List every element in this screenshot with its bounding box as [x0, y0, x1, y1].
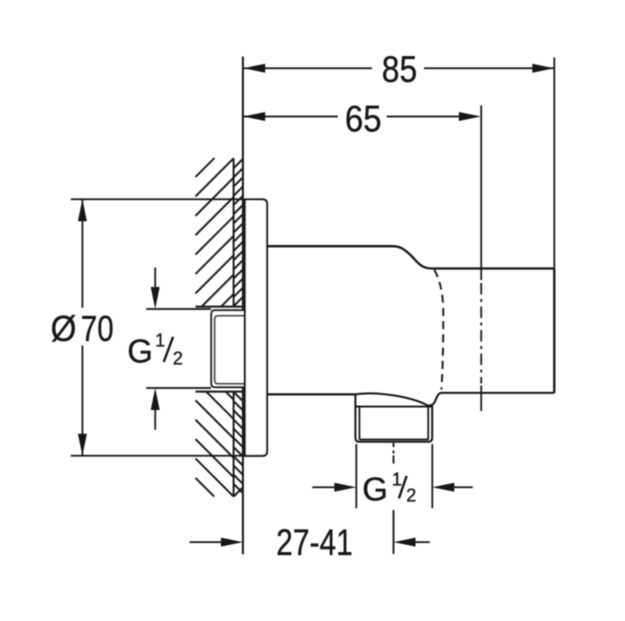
- wall surface line (left extension line): [242, 57, 244, 555]
- 85 right extension (above body): [553, 58, 555, 269]
- body bottom right: [428, 393, 554, 406]
- wall hatch lower section: long lines: [196, 392, 234, 497]
- nipple shoulder arc: [355, 393, 428, 405]
- svg-text:G: G: [127, 333, 153, 370]
- 65/center extension line: [480, 105, 482, 280]
- svg-text:Ø: Ø: [51, 310, 77, 350]
- body right edge: [553, 269, 555, 393]
- svg-text:2: 2: [406, 485, 416, 505]
- 65 dimension: [243, 116, 459, 118]
- svg-text:2: 2: [173, 348, 183, 368]
- svg-text:85: 85: [382, 50, 417, 91]
- pipe size extension lines + arrows: [146, 309, 211, 388]
- svg-text:1: 1: [392, 470, 402, 490]
- svg-text:27-41: 27-41: [276, 523, 353, 564]
- 85 dimension: [243, 67, 554, 69]
- svg-text:70: 70: [81, 308, 114, 348]
- outlet nipple: [355, 394, 432, 442]
- wall hole edges: [196, 307, 244, 392]
- body outline top: [267, 246, 554, 268]
- 27-41 dimension: [190, 541, 430, 543]
- svg-text:1: 1: [155, 330, 165, 350]
- pipe union behind wall: [211, 310, 243, 387]
- wall hatch upper section: long lines: [196, 158, 234, 307]
- escutcheon flange: [245, 199, 267, 455]
- outlet center line: [393, 443, 395, 554]
- hidden silhouette dashed curve: [434, 270, 443, 390]
- diameter 70 dimension: [71, 199, 243, 455]
- svg-text:G: G: [362, 470, 388, 507]
- body bottom left: [267, 393, 355, 395]
- svg-text:65: 65: [345, 99, 382, 140]
- hatch spine line: [233, 158, 235, 496]
- wall hatch lower section: short lines: [234, 392, 243, 497]
- bottom nipple extension lines: [356, 444, 432, 508]
- G 1/2 dimension bottom: [312, 486, 473, 488]
- wall hatch upper section: short lines: [234, 159, 243, 306]
